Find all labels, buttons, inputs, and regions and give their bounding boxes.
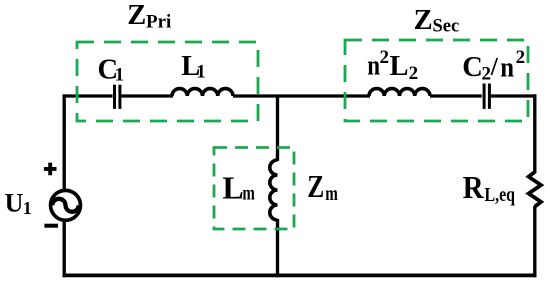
svg-text:2: 2 <box>380 47 390 68</box>
label Zm <box>307 169 338 205</box>
svg-text:Z: Z <box>414 5 433 36</box>
wire middle vertical upper <box>276 96 279 161</box>
svg-text:2: 2 <box>516 47 526 68</box>
svg-text:n: n <box>500 53 514 84</box>
capacitor C1 <box>115 85 120 109</box>
svg-text:1: 1 <box>115 64 125 85</box>
svg-text:/: / <box>490 52 499 81</box>
wire left vertical lower <box>63 221 66 277</box>
inductor Lm (vertical, humps to left) <box>270 160 278 220</box>
svg-text:Z: Z <box>127 0 146 31</box>
svg-text:1: 1 <box>23 198 32 218</box>
svg-text:L,eq: L,eq <box>485 185 516 206</box>
minus sign <box>44 224 58 228</box>
wire right vertical upper <box>533 94 536 173</box>
svg-text:L: L <box>222 169 243 205</box>
svg-text:m: m <box>242 181 255 205</box>
svg-text:2: 2 <box>409 63 419 84</box>
inductor L1 <box>172 89 233 96</box>
svg-text:Sec: Sec <box>433 17 460 37</box>
label C1 <box>98 54 125 85</box>
label C2/n^2 <box>462 47 525 84</box>
label Z_Pri <box>127 0 171 33</box>
label L1 <box>181 51 205 83</box>
svg-text:C: C <box>462 52 483 83</box>
label Z_Sec <box>414 5 460 37</box>
label U1 <box>5 189 32 218</box>
svg-text:Z: Z <box>307 169 324 204</box>
wire L1 to n2L2 through node at middle branch <box>233 94 370 97</box>
label Lm <box>222 169 255 205</box>
svg-text:n: n <box>367 51 380 82</box>
dashed impedance box Z_Pri <box>77 42 258 121</box>
wire top-left segment from source to C1 <box>63 94 113 97</box>
svg-text:U: U <box>5 189 24 218</box>
svg-text:2: 2 <box>482 64 492 85</box>
capacitor C2/n2 <box>484 84 489 109</box>
wire C2 to top-right corner <box>491 94 537 97</box>
wire C1 to L1 <box>121 94 173 97</box>
wire bottom <box>63 273 537 277</box>
wire n2L2 to C2 <box>430 94 482 97</box>
label n^2 L2 <box>367 47 418 84</box>
svg-text:Pri: Pri <box>146 12 171 33</box>
label R_L,eq <box>463 170 516 206</box>
wire left vertical upper (source + lead) <box>63 94 66 189</box>
svg-text:L: L <box>390 51 409 82</box>
inductor n^2 L2 <box>369 89 430 96</box>
dashed impedance box Z_Sec <box>345 40 528 121</box>
wire right vertical lower <box>533 206 536 277</box>
resistor R_L,eq zigzag <box>529 172 541 207</box>
voltage source U1 <box>51 190 81 220</box>
wire middle vertical lower <box>276 219 279 277</box>
svg-text:R: R <box>463 170 485 205</box>
dashed impedance box around Lm <box>214 148 294 230</box>
plus sign <box>44 163 57 176</box>
svg-text:m: m <box>325 181 338 205</box>
svg-text:1: 1 <box>196 62 206 83</box>
